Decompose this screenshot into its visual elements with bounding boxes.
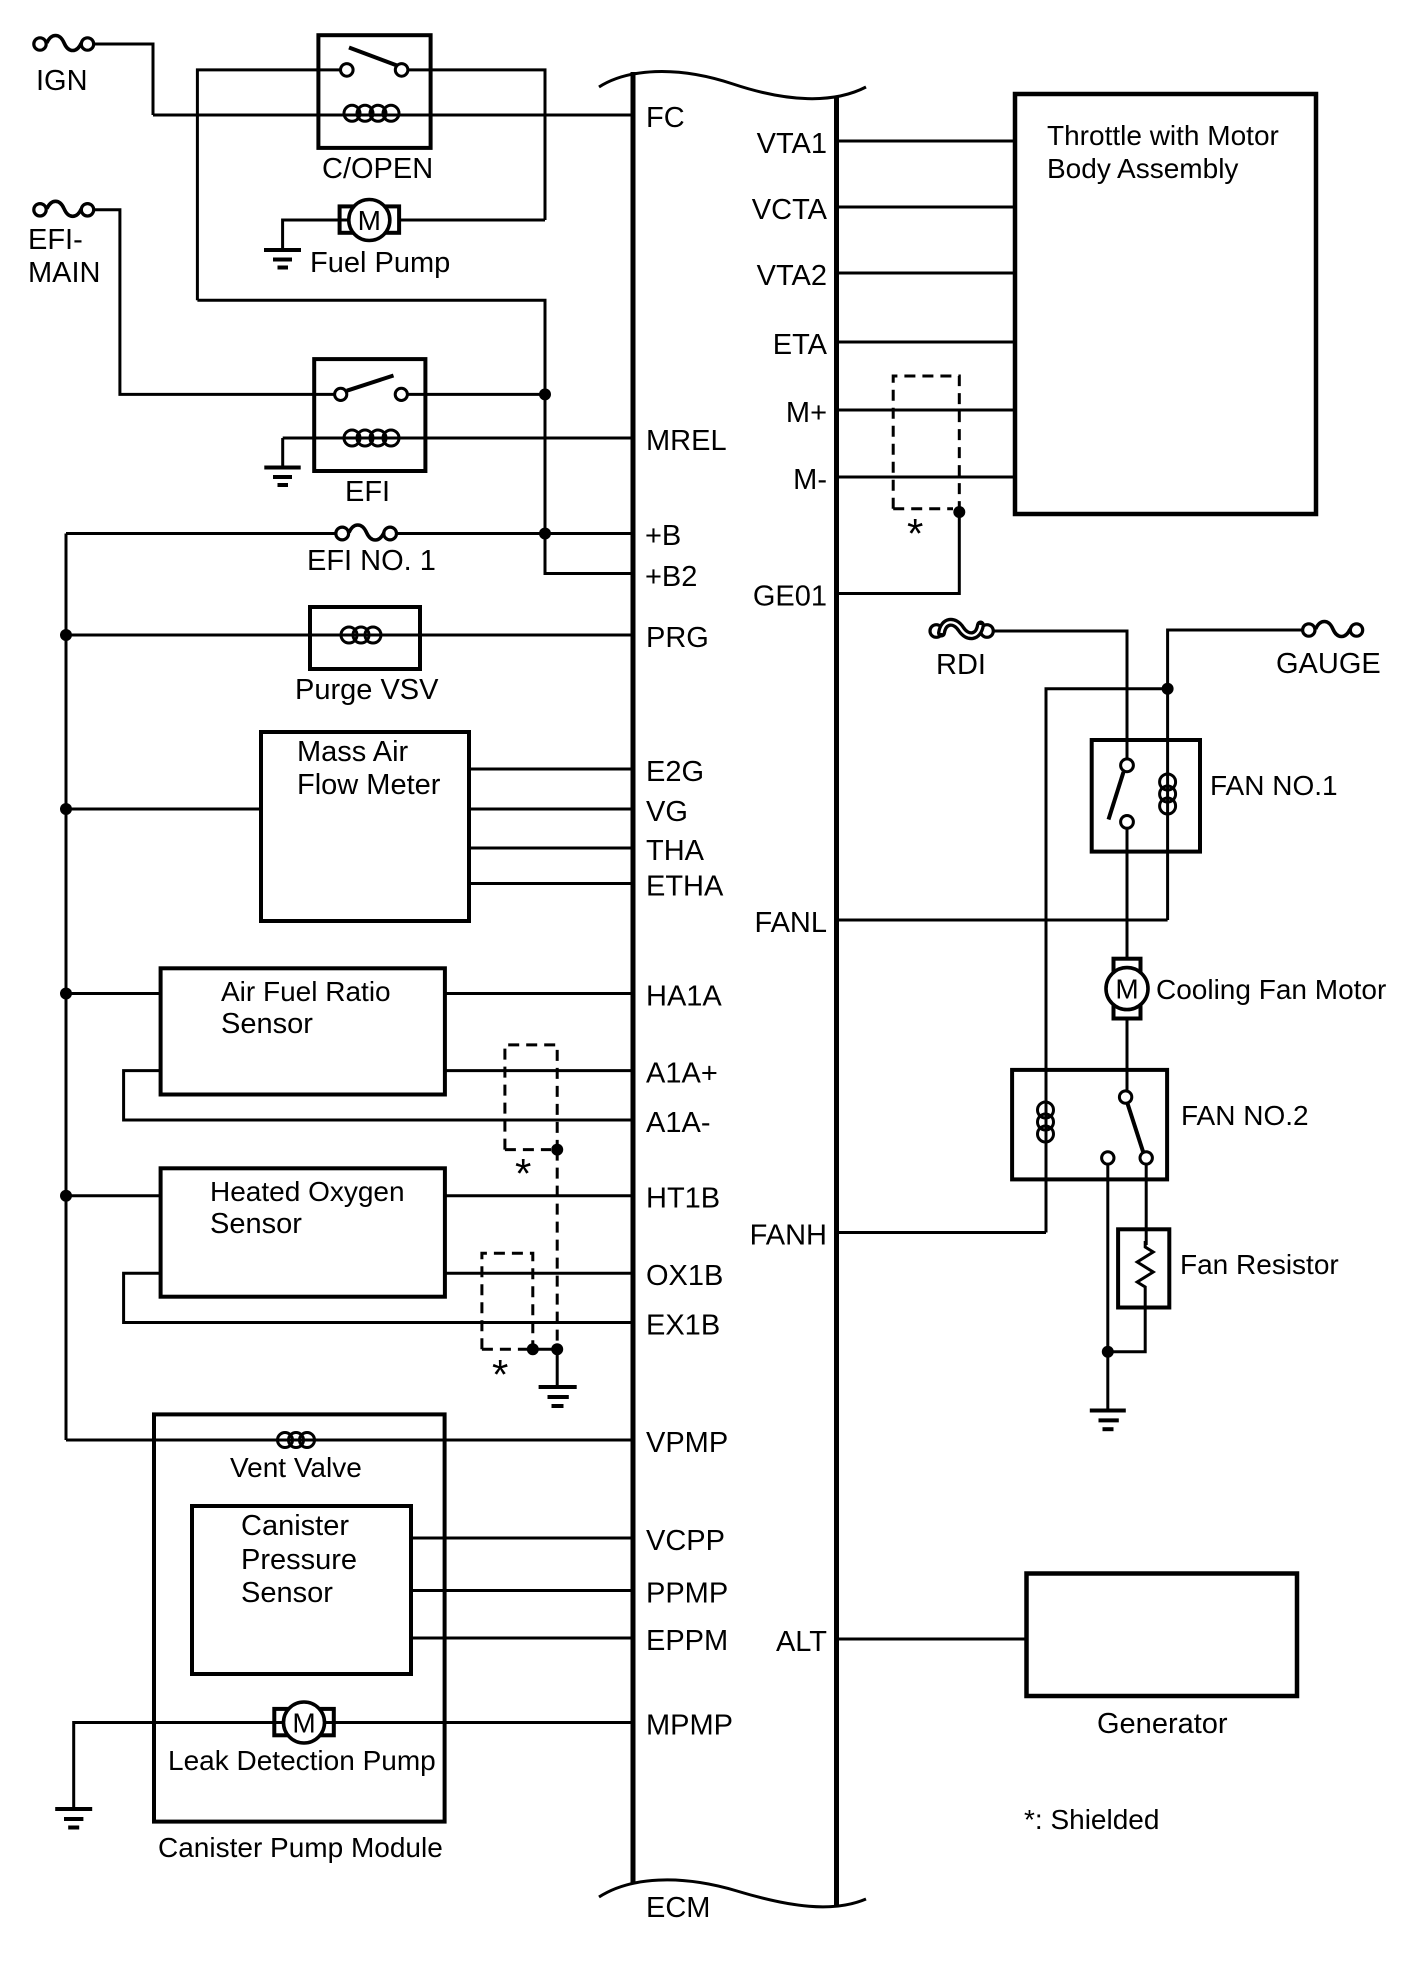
ground (fuel pump) bbox=[264, 250, 301, 268]
wire EFI coil to ground bbox=[281, 438, 284, 467]
svg-text:VCPP: VCPP bbox=[646, 1525, 725, 1557]
wire motor to FAN NO.2 switch bbox=[1126, 1019, 1129, 1091]
svg-text:Flow Meter: Flow Meter bbox=[297, 769, 441, 801]
module Generator bbox=[1027, 1574, 1298, 1741]
wire rail to MAF bbox=[66, 808, 261, 811]
wire GAUGE feed down bbox=[1168, 630, 1303, 689]
svg-text:RDI: RDI bbox=[936, 649, 986, 681]
wire FAN NO.2 left contact down bbox=[1106, 1164, 1109, 1352]
svg-text:Canister: Canister bbox=[241, 1510, 349, 1542]
sensor Air Fuel Ratio Sensor bbox=[161, 968, 445, 1094]
svg-text:IGN: IGN bbox=[36, 65, 88, 97]
svg-text:Throttle with Motor: Throttle with Motor bbox=[1047, 120, 1279, 151]
svg-text:VTA1: VTA1 bbox=[757, 128, 827, 160]
fuse EFI NO. 1 bbox=[307, 525, 436, 577]
wire IGN to FC line bbox=[94, 44, 153, 115]
wire FAN NO.2 right contact to resistor bbox=[1145, 1164, 1148, 1245]
svg-text:M+: M+ bbox=[786, 397, 827, 429]
svg-text:Cooling Fan Motor: Cooling Fan Motor bbox=[1156, 974, 1386, 1005]
svg-text:ETHA: ETHA bbox=[646, 871, 724, 903]
svg-text:C/OPEN: C/OPEN bbox=[322, 153, 433, 185]
node shield A1A junction bbox=[551, 1144, 563, 1156]
wire rail to AFR sensor bbox=[66, 992, 161, 995]
svg-text:*: * bbox=[907, 510, 923, 557]
wire VG bbox=[469, 808, 633, 811]
wire RDI to FAN NO.1 switch bbox=[993, 631, 1127, 759]
motor Cooling Fan Motor bbox=[1106, 959, 1386, 1019]
ground (shield drain) bbox=[539, 1387, 577, 1406]
wire VCTA bbox=[837, 206, 1016, 209]
wire FAN NO.1 switch to motor bbox=[1126, 828, 1129, 958]
svg-text:M: M bbox=[1115, 974, 1138, 1005]
ECM top break wave bbox=[599, 72, 866, 99]
wire ETA bbox=[837, 341, 1016, 344]
wire +B rail right segment to ECM pin +B bbox=[397, 532, 634, 535]
svg-text:M-: M- bbox=[793, 464, 827, 496]
module Canister Pump Module box bbox=[154, 1414, 445, 1821]
svg-text:FAN NO.1: FAN NO.1 bbox=[1210, 770, 1338, 801]
wire VCPP bbox=[411, 1537, 633, 1540]
svg-text:EFI-: EFI- bbox=[28, 224, 83, 256]
svg-text:VTA2: VTA2 bbox=[757, 260, 827, 292]
svg-text:M: M bbox=[358, 205, 381, 236]
svg-text:*: * bbox=[492, 1351, 508, 1398]
wire shield drain to ground bbox=[556, 1349, 559, 1387]
wire junction to FAN NO.2 coil branch bbox=[1046, 689, 1168, 1233]
svg-text:GE01: GE01 bbox=[753, 581, 827, 613]
ground (leak detection pump) bbox=[55, 1809, 92, 1828]
ground (EFI relay) bbox=[264, 468, 300, 486]
connector EFI-MAIN bbox=[28, 201, 101, 289]
wire FANH bbox=[837, 1231, 1047, 1234]
wire OX1B bbox=[445, 1272, 633, 1275]
solenoid Purge VSV bbox=[295, 607, 439, 706]
node shield OX1B junction bbox=[527, 1343, 539, 1355]
wire EFI switch right to +B vertical bbox=[407, 393, 545, 396]
resistor Fan Resistor bbox=[1118, 1229, 1339, 1307]
module Throttle with Motor Body Assembly bbox=[1015, 94, 1316, 514]
svg-text:EFI NO. 1: EFI NO. 1 bbox=[307, 545, 436, 577]
wire HT1B bbox=[445, 1194, 633, 1197]
solenoid Vent Valve coil bbox=[230, 1433, 362, 1484]
ground (cooling fan) bbox=[1090, 1411, 1126, 1430]
svg-text:PRG: PRG bbox=[646, 622, 709, 654]
wire +B2 branch bbox=[545, 534, 633, 574]
svg-text:+B2: +B2 bbox=[645, 561, 697, 593]
node +B junction bbox=[539, 528, 551, 540]
node HT1B tap bbox=[60, 1190, 72, 1202]
svg-text:VPMP: VPMP bbox=[646, 1427, 728, 1459]
node VG tap bbox=[60, 803, 72, 815]
sensor Canister Pressure Sensor bbox=[192, 1506, 411, 1674]
shield box A1A (dashed) bbox=[505, 1045, 557, 1150]
relay C/OPEN bbox=[318, 35, 433, 185]
svg-text:Purge VSV: Purge VSV bbox=[295, 674, 439, 706]
svg-text:Sensor: Sensor bbox=[241, 1577, 333, 1609]
wire A1A+ bbox=[445, 1069, 633, 1072]
svg-text:THA: THA bbox=[646, 835, 705, 867]
connector IGN bbox=[34, 36, 94, 98]
ECM bottom break wave bbox=[599, 1880, 866, 1907]
svg-text:EPPM: EPPM bbox=[646, 1625, 728, 1657]
wire resistor to ground junction bbox=[1108, 1295, 1145, 1352]
svg-text:EX1B: EX1B bbox=[646, 1310, 720, 1342]
svg-text:GAUGE: GAUGE bbox=[1276, 648, 1381, 680]
ECM left vertical bar bbox=[631, 72, 636, 1883]
svg-text:Pressure: Pressure bbox=[241, 1544, 357, 1576]
svg-text:MAIN: MAIN bbox=[28, 257, 101, 289]
wire FC line (IGN/C-OPEN coil to ECM pin FC) bbox=[153, 114, 633, 117]
svg-text:OX1B: OX1B bbox=[646, 1260, 723, 1292]
wire shield drain (dashed vertical) bbox=[556, 1150, 559, 1350]
sensor Heated Oxygen Sensor bbox=[161, 1168, 445, 1296]
wire PRG (rail through Purge VSV to ECM pin PRG) bbox=[66, 634, 633, 637]
svg-text:HA1A: HA1A bbox=[646, 981, 722, 1013]
node shield drain junction bbox=[551, 1343, 563, 1355]
wire junction to ground bbox=[1106, 1352, 1109, 1410]
wire C/OPEN switch left bbox=[197, 70, 340, 300]
svg-text:A1A+: A1A+ bbox=[646, 1058, 718, 1090]
svg-text:*: Shielded: *: Shielded bbox=[1024, 1804, 1159, 1835]
wire VTA1 bbox=[837, 140, 1016, 143]
wire EX1B loop bbox=[124, 1273, 633, 1322]
svg-text:E2G: E2G bbox=[646, 756, 704, 788]
svg-text:M: M bbox=[292, 1708, 315, 1739]
svg-text:HT1B: HT1B bbox=[646, 1183, 720, 1215]
wire pump to ground bbox=[74, 1723, 275, 1810]
relay EFI bbox=[314, 359, 425, 508]
wire relay loop bottom bbox=[197, 300, 545, 533]
wire VTA2 bbox=[837, 272, 1016, 275]
wire rail to HO2 sensor bbox=[66, 1194, 161, 1197]
wire +B rail left segment bbox=[66, 532, 336, 535]
svg-text:FC: FC bbox=[646, 102, 685, 134]
wire EPPM bbox=[411, 1637, 633, 1640]
wire junction to FAN NO.1 coil bbox=[1166, 689, 1169, 920]
svg-text:Heated Oxygen: Heated Oxygen bbox=[210, 1176, 405, 1207]
shield box M+/M- (dashed) bbox=[893, 376, 959, 509]
svg-text:FANL: FANL bbox=[754, 907, 827, 939]
svg-text:Fuel Pump: Fuel Pump bbox=[310, 247, 450, 279]
motor Leak Detection Pump bbox=[168, 1702, 633, 1776]
wire MREL (EFI coil to ECM pin MREL) bbox=[283, 437, 633, 440]
wire PPMP bbox=[411, 1589, 633, 1592]
svg-text:VG: VG bbox=[646, 796, 688, 828]
node fan ground junction bbox=[1102, 1346, 1114, 1358]
svg-text:Fan Resistor: Fan Resistor bbox=[1180, 1249, 1339, 1280]
wire THA bbox=[469, 847, 633, 850]
node PRG tap bbox=[60, 629, 72, 641]
shield box OX1B (dashed) bbox=[482, 1253, 533, 1349]
wire E2G bbox=[469, 768, 633, 771]
node EFI switch output junction bbox=[539, 388, 551, 400]
wire shield junction link bbox=[533, 1348, 557, 1351]
wire HA1A bbox=[445, 992, 633, 995]
svg-text:Vent Valve: Vent Valve bbox=[230, 1452, 362, 1483]
svg-text:Air Fuel Ratio: Air Fuel Ratio bbox=[221, 976, 391, 1007]
svg-text:Canister Pump Module: Canister Pump Module bbox=[158, 1832, 443, 1863]
wire EFI-MAIN to EFI relay switch bbox=[94, 210, 335, 395]
svg-text:FANH: FANH bbox=[750, 1220, 827, 1252]
wire ETHA bbox=[469, 882, 633, 885]
connector GAUGE (fuse) bbox=[1276, 622, 1381, 681]
connector RDI (fusible link) bbox=[930, 622, 993, 681]
svg-text:Body Assembly: Body Assembly bbox=[1047, 153, 1238, 184]
svg-text:Sensor: Sensor bbox=[221, 1008, 313, 1040]
wire FANL bbox=[837, 919, 1168, 922]
svg-text:FAN NO.2: FAN NO.2 bbox=[1181, 1100, 1309, 1131]
node shield M junction bbox=[953, 506, 965, 518]
svg-text:ECM: ECM bbox=[646, 1892, 710, 1924]
wire M- bbox=[837, 476, 1016, 479]
motor Fuel Pump bbox=[310, 200, 545, 280]
svg-text:ETA: ETA bbox=[773, 329, 828, 361]
wire left power rail vertical bbox=[65, 534, 68, 1441]
svg-text:Mass Air: Mass Air bbox=[297, 736, 409, 768]
svg-text:MREL: MREL bbox=[646, 425, 727, 457]
wire fuel pump to ground bbox=[283, 220, 340, 250]
svg-text:EFI: EFI bbox=[345, 476, 390, 508]
svg-text:PPMP: PPMP bbox=[646, 1578, 728, 1610]
wire GE01 bbox=[837, 512, 960, 594]
sensor Mass Air Flow Meter bbox=[261, 732, 469, 921]
wire A1A- loop bbox=[124, 1071, 633, 1120]
node HA1A tap bbox=[60, 988, 72, 1000]
ECM right vertical bar bbox=[834, 96, 839, 1907]
wire VPMP (rail through vent valve coil to ECM pin VPMP) bbox=[66, 1439, 633, 1442]
wire M+ bbox=[837, 409, 1016, 412]
node fan feed junction bbox=[1162, 683, 1174, 695]
svg-text:Sensor: Sensor bbox=[210, 1208, 302, 1240]
wire ALT bbox=[837, 1638, 1027, 1641]
svg-text:*: * bbox=[515, 1150, 531, 1197]
relay FAN NO.1 bbox=[1092, 740, 1338, 852]
svg-text:+B: +B bbox=[645, 520, 681, 552]
relay FAN NO.2 bbox=[1012, 1070, 1308, 1180]
svg-text:A1A-: A1A- bbox=[646, 1107, 710, 1139]
svg-text:Generator: Generator bbox=[1097, 1708, 1228, 1740]
wire C/OPEN switch right to fuel pump feed bbox=[408, 70, 545, 220]
svg-text:VCTA: VCTA bbox=[752, 194, 828, 226]
svg-text:MPMP: MPMP bbox=[646, 1710, 733, 1742]
svg-text:ALT: ALT bbox=[776, 1626, 827, 1658]
svg-text:Leak Detection Pump: Leak Detection Pump bbox=[168, 1745, 436, 1776]
